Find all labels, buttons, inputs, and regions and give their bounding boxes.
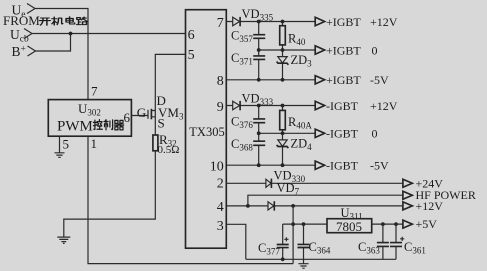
junction B+/Ucb: [69, 32, 73, 36]
ground below PWM pin5: [55, 153, 65, 158]
resistor R40: [280, 22, 306, 51]
node HF POWER terminal: [403, 188, 476, 202]
wire +12V tap down to 7805 input and PWM pin1: [292, 206, 294, 264]
node -IGBT +12V terminal: [315, 99, 398, 113]
svg-text:+IGBT: +IGBT: [326, 15, 361, 29]
svg-text:0: 0: [372, 43, 378, 57]
diode VD335: [233, 7, 274, 27]
capacitor C376: [231, 106, 265, 142]
capacitor C361 (electrolytic): [390, 224, 426, 259]
wire PWM pin5 stub: [59, 136, 61, 152]
ground below R32 return: [57, 237, 70, 243]
node Ue input terminal: [12, 3, 36, 21]
node +24V terminal: [403, 176, 443, 190]
wire PWM pin1 down and right to +12V node: [88, 136, 293, 263]
svg-text:7805: 7805: [336, 219, 362, 234]
svg-text:7: 7: [217, 16, 224, 31]
wire ground rail: [246, 258, 396, 260]
svg-text:7: 7: [91, 84, 98, 99]
svg-text:-5V: -5V: [370, 73, 389, 87]
wire TX pin5 to drain/source chain: [155, 54, 185, 135]
capacitor C377 (electrolytic): [258, 224, 289, 259]
svg-text:+12V: +12V: [370, 15, 398, 29]
svg-text:0: 0: [372, 127, 378, 141]
svg-text:0.5Ω: 0.5Ω: [158, 144, 180, 156]
capacitor C357: [231, 22, 265, 56]
node +12V terminal: [403, 199, 443, 213]
wire 7805 output line: [372, 223, 403, 225]
node -IGBT 0 terminal: [315, 127, 377, 141]
svg-text:6: 6: [188, 28, 195, 43]
wire 7805 input line: [283, 223, 327, 225]
zener ZD4: [277, 133, 313, 165]
svg-text:-5V: -5V: [370, 159, 389, 173]
capacitor C363: [358, 224, 389, 259]
op-amp U302 PWM controller box: [48, 100, 131, 137]
wire R32 to ground: [64, 151, 156, 237]
svg-text:9: 9: [217, 100, 224, 115]
svg-text:10: 10: [210, 160, 224, 175]
node -IGBT -5V terminal: [315, 159, 389, 173]
svg-text:5: 5: [188, 48, 195, 63]
wire TX pin3 to ground rail: [226, 224, 246, 259]
node +IGBT -5V terminal: [315, 73, 389, 87]
svg-text:6: 6: [124, 110, 131, 125]
svg-text:4: 4: [217, 200, 224, 215]
junction dots around 7805: [291, 222, 398, 226]
svg-text:G: G: [137, 105, 146, 120]
svg-text:+12V: +12V: [370, 99, 398, 113]
capacitor C371: [231, 51, 265, 80]
ground below C364: [298, 264, 308, 269]
node +IGBT +12V terminal: [315, 15, 398, 29]
resistor R40A: [280, 106, 313, 134]
wire TX pin4 rail: [226, 205, 403, 207]
wire TX pin9 rail: [226, 105, 315, 107]
text 控制器 (drawn glyphs): [93, 120, 123, 130]
junction VD7 output tap: [291, 204, 295, 208]
node Ucb input terminal: [10, 27, 32, 45]
capacitor C368: [231, 137, 265, 165]
svg-text:TX305: TX305: [189, 125, 224, 139]
svg-text:S: S: [158, 116, 165, 131]
node +5V terminal: [403, 217, 437, 231]
junction dots section B: [257, 104, 285, 168]
junction C377/ground rail: [281, 257, 285, 261]
svg-text:+IGBT: +IGBT: [326, 73, 361, 87]
wire Ue to PWM pin7: [35, 9, 88, 100]
wire TX pin7 rail: [226, 21, 315, 23]
svg-text:-IGBT: -IGBT: [326, 99, 359, 113]
wire TX pin10 rail: [226, 164, 315, 166]
svg-text:5: 5: [63, 137, 70, 152]
junction dots section A: [257, 20, 285, 82]
wire TX pin8 rail: [226, 79, 315, 81]
wire -IGBT 0 rail: [259, 132, 316, 134]
diode VD330: [266, 169, 306, 188]
wire Ucb to TX pin6: [32, 33, 186, 35]
diode VD333: [233, 91, 274, 110]
transistor VM3 MOSFET: [137, 93, 184, 131]
capacitor C364: [298, 224, 331, 263]
diode VD7: [268, 181, 300, 211]
node B+ input terminal: [12, 44, 36, 59]
text 开机电路 (drawn glyphs): [39, 17, 87, 25]
wire TX pin2 rail: [226, 182, 403, 184]
svg-text:3: 3: [217, 219, 224, 234]
svg-text:+IGBT: +IGBT: [326, 43, 361, 57]
transformer TX305 box: [186, 10, 227, 249]
zener ZD3: [277, 50, 313, 80]
svg-text:1: 1: [91, 136, 98, 151]
wire PWM pin6 to gate: [131, 115, 148, 117]
resistor R32: [153, 132, 180, 156]
svg-text:FROM: FROM: [3, 13, 40, 28]
svg-text:2: 2: [217, 177, 224, 192]
svg-text:8: 8: [217, 74, 224, 89]
svg-text:-IGBT: -IGBT: [326, 159, 359, 173]
svg-text:-IGBT: -IGBT: [326, 127, 359, 141]
svg-text:PWM: PWM: [57, 119, 93, 135]
wire +IGBT 0 rail: [259, 49, 316, 51]
wire B+ up to Ucb line: [36, 34, 71, 52]
svg-text:+12V: +12V: [416, 199, 444, 213]
svg-text:+5V: +5V: [416, 217, 438, 231]
regulator U311 7805: [327, 206, 372, 234]
junction pin4/HF: [246, 204, 250, 208]
node +IGBT 0 terminal: [315, 43, 377, 57]
wire HF POWER line: [248, 195, 403, 206]
